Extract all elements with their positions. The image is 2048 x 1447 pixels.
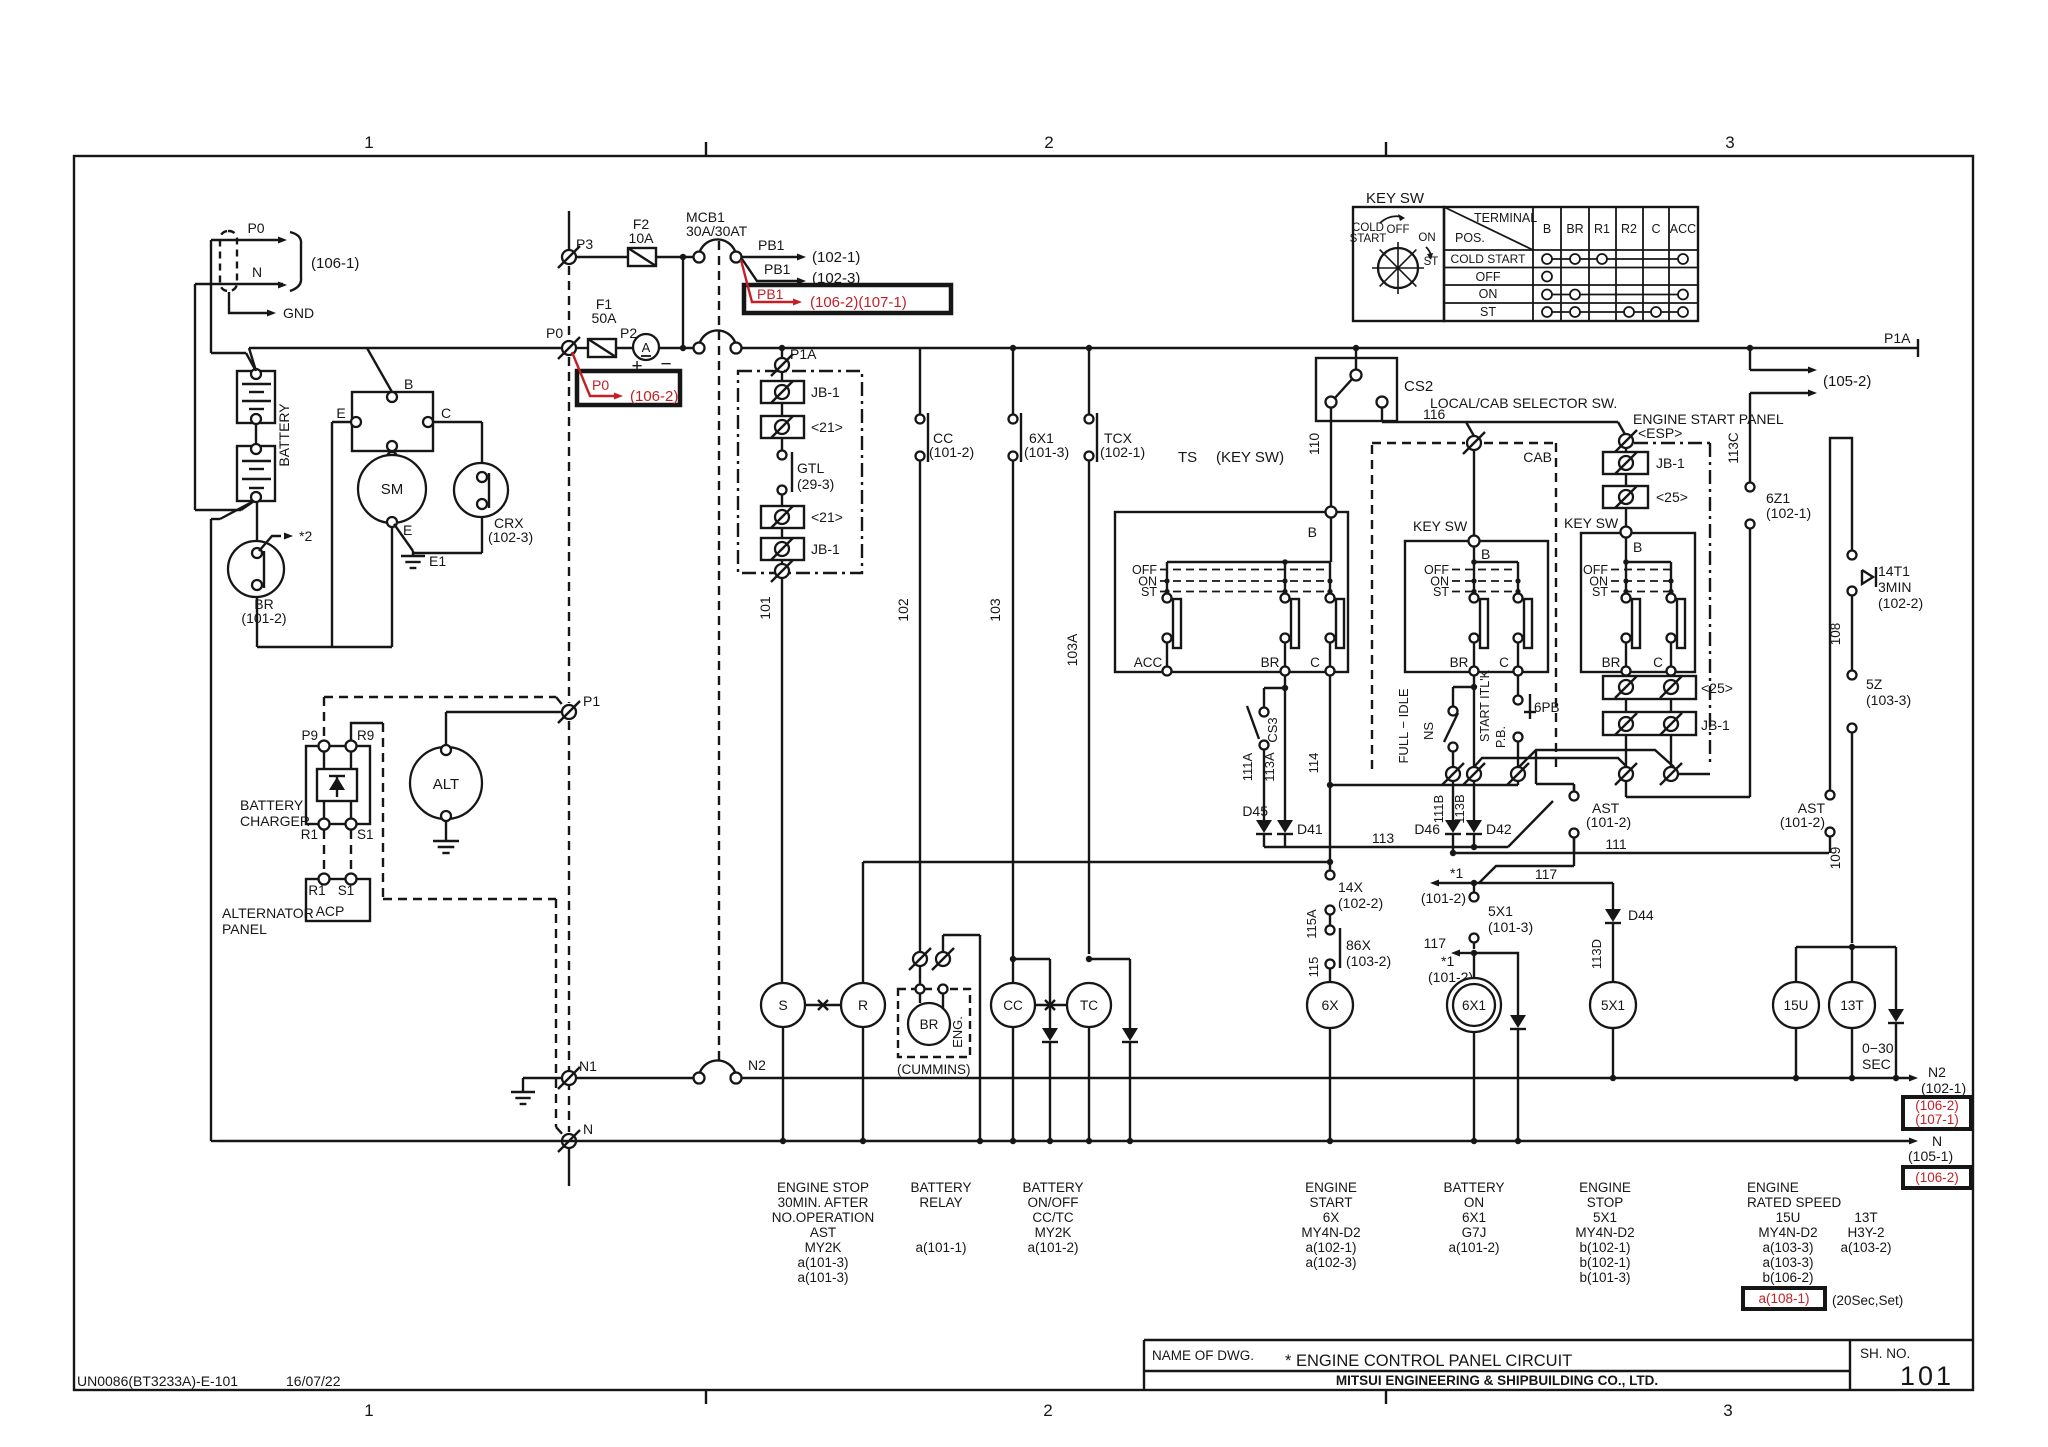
svg-text:BATTERY: BATTERY: [910, 1180, 971, 1195]
terminal ESP input: [1619, 434, 1633, 448]
svg-text:N2: N2: [1928, 1064, 1946, 1080]
surge diode 0-30SEC: [1862, 1009, 1904, 1081]
wire 113 bus: [1264, 801, 1553, 847]
svg-text:50A: 50A: [592, 310, 618, 326]
svg-text:(101-2): (101-2): [1586, 814, 1631, 830]
svg-text:C: C: [1499, 655, 1509, 670]
svg-text:115A: 115A: [1304, 909, 1319, 939]
surge diode beside 6X1: [1474, 953, 1526, 1140]
svg-text:JB-1: JB-1: [811, 541, 840, 557]
svg-text:(101-3): (101-3): [1024, 444, 1069, 460]
svg-text:TERMINAL: TERMINAL: [1474, 211, 1537, 225]
svg-text:LOCAL/CAB SELECTOR SW.: LOCAL/CAB SELECTOR SW.: [1430, 395, 1617, 411]
highlight box PB1 (106-2)(107-1): [741, 260, 951, 313]
svg-text:ENG.: ENG.: [950, 1016, 965, 1048]
key switch ESP box: [1564, 515, 1695, 676]
wire AST right feed loop: [1830, 438, 1852, 791]
mechanical link CC-TC: [1035, 1000, 1067, 1010]
wire battery minus to N bus (left drop): [211, 502, 252, 1141]
svg-text:<25>: <25>: [1701, 680, 1733, 696]
svg-text:b(101-3): b(101-3): [1579, 1270, 1630, 1285]
terminal box <25> ESP bottom: [1603, 675, 1733, 699]
svg-text:NS: NS: [1421, 722, 1436, 740]
svg-text:ACC: ACC: [1134, 655, 1163, 670]
svg-text:3: 3: [1723, 1401, 1732, 1420]
svg-text:b(106-2): b(106-2): [1762, 1270, 1813, 1285]
svg-text:a(101-3): a(101-3): [797, 1255, 848, 1270]
svg-text:MY4N-D2: MY4N-D2: [1575, 1225, 1634, 1240]
svg-text:15U: 15U: [1784, 998, 1809, 1013]
contact AST left (101-2): [1570, 785, 1632, 853]
breaker MCB1 pole 2: [694, 330, 742, 353]
legend engine stop AST: [772, 1180, 875, 1285]
svg-text:103: 103: [987, 598, 1003, 622]
alternator panel dashed boundary top: [324, 697, 565, 740]
crossover wire 6PB to ESP C: [1519, 750, 1674, 767]
svg-text:(20Sec,Set): (20Sec,Set): [1832, 1293, 1903, 1308]
svg-text:<21>: <21>: [811, 509, 843, 525]
svg-text:D44: D44: [1628, 907, 1654, 923]
wire TS BR column down: [0, 0, 1, 1]
svg-text:(102-1): (102-1): [812, 249, 860, 266]
svg-text:BR: BR: [1602, 655, 1621, 670]
svg-text:STOP: STOP: [1587, 1195, 1624, 1210]
svg-text:ON: ON: [1464, 1195, 1484, 1210]
svg-text:E: E: [336, 405, 345, 421]
key switch pictogram box: [1350, 207, 1444, 321]
bus N2: [741, 1064, 1966, 1096]
svg-text:SH. NO.: SH. NO.: [1860, 1346, 1910, 1361]
svg-text:BR: BR: [920, 1017, 939, 1032]
svg-text:6X1: 6X1: [1462, 998, 1486, 1013]
wire 102 to BR relay: [895, 461, 920, 952]
starter solenoid box: [336, 376, 451, 462]
svg-text:101: 101: [757, 596, 773, 620]
svg-text:ON: ON: [1418, 232, 1435, 244]
ALT ground: [433, 821, 459, 853]
alternator enclosure dashed boundary: [383, 723, 564, 1136]
switch CS3: [1247, 688, 1285, 820]
contact 6Z1 (102-1): [1746, 483, 1812, 798]
svg-text:113: 113: [1372, 830, 1395, 846]
svg-text:R9: R9: [357, 728, 374, 743]
svg-text:KEY SW: KEY SW: [1564, 515, 1619, 531]
legend battery on/off CC/TC: [1022, 1180, 1083, 1255]
starter motor SM: [358, 455, 426, 538]
svg-text:NAME OF DWG.: NAME OF DWG.: [1152, 1348, 1254, 1363]
svg-text:10A: 10A: [629, 230, 655, 246]
svg-text:GND: GND: [283, 305, 314, 321]
wire solenoid C to CRX: [433, 422, 482, 463]
svg-text:START: START: [1350, 233, 1387, 245]
wire 103 to coil CC: [987, 461, 1013, 983]
svg-text:D42: D42: [1486, 821, 1512, 837]
column labels: [364, 133, 1734, 1420]
svg-text:2: 2: [1043, 1401, 1052, 1420]
svg-text:ENGINE STOP: ENGINE STOP: [777, 1180, 869, 1195]
svg-text:a(101-2): a(101-2): [1027, 1240, 1078, 1255]
svg-text:86X: 86X: [1346, 937, 1372, 953]
svg-text:RATED SPEED: RATED SPEED: [1747, 1195, 1842, 1210]
relay coil S: [761, 983, 805, 1140]
svg-text:TC: TC: [1080, 998, 1098, 1013]
svg-text:109: 109: [1828, 847, 1843, 870]
svg-text:5X1: 5X1: [1593, 1210, 1617, 1225]
svg-text:RELAY: RELAY: [919, 1195, 962, 1210]
svg-text:102: 102: [895, 598, 911, 622]
svg-text:R1: R1: [301, 827, 318, 842]
svg-text:(106-2): (106-2): [1915, 1170, 1959, 1185]
crossover wire CAB BR to ESP BR: [1474, 758, 1626, 767]
svg-text:NO.OPERATION: NO.OPERATION: [772, 1210, 875, 1225]
wire PB1 branch 2 to (102-3): [742, 259, 860, 287]
wire 117 to D44: [1612, 883, 1614, 909]
svg-text:B: B: [1543, 222, 1551, 236]
svg-text:14X: 14X: [1338, 879, 1364, 895]
svg-text:P0: P0: [247, 220, 264, 236]
svg-text:(103-2): (103-2): [1346, 953, 1391, 969]
relay coil BR: [908, 993, 950, 1045]
breaker MCB1 pole 3: [694, 1057, 767, 1084]
terminal box JB-1 (upper): [761, 372, 840, 403]
dashed rail P1 to N: [568, 721, 570, 1132]
svg-text:D46: D46: [1414, 821, 1440, 837]
alternator control panel ACP: [306, 874, 370, 922]
bus P1A: [741, 330, 1918, 357]
svg-text:113D: 113D: [1589, 939, 1604, 969]
svg-text:a(103-3): a(103-3): [1762, 1255, 1813, 1270]
svg-text:101: 101: [1900, 1361, 1954, 1391]
selector switch CS2: [1316, 345, 1433, 421]
svg-text:P0: P0: [592, 377, 609, 393]
svg-text:CC: CC: [1003, 998, 1023, 1013]
svg-text:(102-1): (102-1): [1766, 505, 1811, 521]
wire 117 upper with *1 (101-2) arrow: [1421, 838, 1613, 906]
svg-text:MY4N-D2: MY4N-D2: [1758, 1225, 1817, 1240]
alternator ALT: [410, 745, 482, 821]
svg-text:(105-2): (105-2): [1823, 373, 1871, 390]
legend engine start 6X: [1301, 1180, 1360, 1270]
wire CAB BR column down: [1471, 675, 1477, 767]
svg-text:B: B: [1633, 539, 1642, 555]
dashed rail P3 to P0: [568, 266, 570, 339]
svg-text:KEY SW: KEY SW: [1413, 518, 1468, 534]
svg-text:GTL: GTL: [797, 460, 824, 476]
svg-text:D45: D45: [1242, 803, 1268, 819]
terminal P0: [546, 325, 580, 359]
svg-text:0−30: 0−30: [1862, 1040, 1894, 1056]
wire ESP BR output to 113C: [1626, 781, 1750, 797]
contact 6X1 (101-3): [1009, 345, 1070, 462]
svg-text:5Z: 5Z: [1866, 676, 1883, 692]
wire bus to solenoid B: [367, 348, 392, 392]
svg-text:117: 117: [1535, 866, 1558, 882]
wire 111B: [1431, 781, 1453, 823]
wire 6PB output to AST: [0, 0, 1, 1]
breaker MCB1 30A/30AT: [686, 209, 748, 263]
terminal box JB-1 (lower): [761, 528, 840, 560]
battery cell 1: [237, 369, 275, 424]
svg-text:116: 116: [1423, 406, 1446, 422]
switch NS (full-idle): [1421, 687, 1474, 767]
svg-text:E: E: [403, 522, 412, 538]
svg-text:108: 108: [1828, 623, 1843, 646]
svg-text:MY2K: MY2K: [805, 1240, 842, 1255]
wire N from cable to battery minus: [195, 284, 257, 510]
svg-text:S1: S1: [357, 827, 374, 842]
svg-text:C: C: [1310, 655, 1320, 670]
svg-text:* ENGINE CONTROL PANEL CIRCUI: * ENGINE CONTROL PANEL CIRCUIT: [1285, 1352, 1572, 1370]
mechanical link S-R: [805, 1000, 841, 1010]
svg-text:MY2K: MY2K: [1035, 1225, 1072, 1240]
terminal P1A: [771, 346, 817, 376]
svg-text:R1: R1: [1594, 222, 1610, 236]
terminal CAB input: [1467, 436, 1481, 450]
svg-text:TS: TS: [1178, 449, 1197, 466]
terminal P3: [558, 211, 593, 268]
stub below N: [568, 1149, 570, 1186]
wire 113A: [1262, 675, 1288, 820]
wire 117 lower with *1 (101-2) arrow: [1424, 935, 1474, 985]
fuse F1 50A: [577, 296, 637, 357]
terminal N1: [558, 1058, 597, 1089]
svg-text:CS2: CS2: [1404, 378, 1433, 395]
key switch CAB box: [1405, 518, 1548, 676]
svg-text:(101-2): (101-2): [1780, 814, 1825, 830]
svg-text:(102-1): (102-1): [1921, 1080, 1966, 1096]
svg-text:MY4N-D2: MY4N-D2: [1301, 1225, 1360, 1240]
wire P0 riser to battery plus: [211, 240, 256, 371]
svg-text:ACP: ACP: [316, 903, 345, 919]
svg-text:+: +: [631, 356, 642, 377]
bus N: [218, 1133, 1953, 1164]
terminal box <25> ESP top: [1603, 474, 1688, 508]
contact CC (101-2): [916, 348, 975, 462]
relay BR terminals: [909, 935, 980, 1140]
wire line A to AST left: [1536, 750, 1574, 791]
wire P1 to ALT: [446, 712, 561, 745]
wire 15U/13T header: [1796, 947, 1896, 1009]
svg-text:R1: R1: [308, 883, 325, 898]
svg-text:JB-1: JB-1: [1656, 455, 1685, 471]
contact 14X (102-2): [1304, 862, 1383, 939]
terminal box JB-1 ESP bottom: [1603, 699, 1730, 735]
svg-text:(107-1): (107-1): [1915, 1112, 1959, 1127]
terminal box JB-1 ESP top: [1603, 449, 1685, 474]
svg-text:6X1: 6X1: [1462, 1210, 1486, 1225]
svg-text:5X1: 5X1: [1601, 998, 1625, 1013]
svg-text:13T: 13T: [1854, 1210, 1877, 1225]
svg-text:ST: ST: [1433, 585, 1449, 599]
svg-text:*1: *1: [1441, 953, 1454, 969]
svg-text:S: S: [778, 997, 787, 1013]
svg-text:a(101-2): a(101-2): [1448, 1240, 1499, 1255]
terminal 101 bottom: [771, 560, 793, 582]
diode D42: [1466, 820, 1512, 850]
svg-text:PB1: PB1: [758, 237, 785, 253]
svg-text:*1: *1: [1450, 865, 1463, 881]
svg-text:N: N: [1932, 1133, 1942, 1149]
highlight box N2 (106-2)(107-1): [1903, 1097, 1971, 1129]
svg-text:COLD START: COLD START: [1451, 252, 1527, 266]
bus left segment: [249, 348, 561, 371]
ENGINE START PANEL caption: [1633, 411, 1784, 441]
contact AST right (101-2): [1780, 791, 1835, 854]
svg-text:P1: P1: [583, 693, 600, 709]
svg-text:ST: ST: [1480, 305, 1496, 319]
svg-text:a(108-1): a(108-1): [1758, 1291, 1809, 1306]
svg-text:5X1: 5X1: [1488, 903, 1513, 919]
svg-text:6X: 6X: [1321, 997, 1339, 1013]
svg-text:P0: P0: [546, 325, 563, 341]
svg-text:G7J: G7J: [1462, 1225, 1487, 1240]
svg-text:113A: 113A: [1262, 752, 1277, 782]
wire CRX to ground node: [413, 517, 482, 553]
svg-text:CHARGER: CHARGER: [240, 813, 310, 829]
wire 114 / TS C column down: [1306, 675, 1518, 865]
svg-text:PANEL: PANEL: [222, 921, 267, 937]
svg-text:16/07/22: 16/07/22: [286, 1373, 341, 1389]
diode D45: [1242, 803, 1272, 847]
svg-text:a(102-1): a(102-1): [1305, 1240, 1356, 1255]
legend engine rated speed 15U: [1747, 1180, 1842, 1285]
svg-text:15U: 15U: [1776, 1210, 1801, 1225]
ammeter A: [616, 334, 694, 377]
svg-text:a(101-1): a(101-1): [915, 1240, 966, 1255]
svg-text:(102-2): (102-2): [1338, 895, 1383, 911]
svg-text:113C: 113C: [1726, 432, 1741, 464]
contact 86X (103-2): [1306, 926, 1391, 983]
wire CAB terminal to key switch: [1473, 451, 1475, 535]
contact TCX (102-1): [1085, 345, 1146, 462]
svg-text:ST: ST: [1592, 585, 1608, 599]
svg-text:C: C: [1653, 655, 1663, 670]
svg-text:(29-3): (29-3): [797, 476, 834, 492]
wire 111 bus: [1453, 836, 1829, 853]
svg-text:<21>: <21>: [811, 419, 843, 435]
ESP panel boundary (dash-dot): [1634, 443, 1710, 766]
diode D44: [1589, 907, 1654, 981]
svg-text:SM: SM: [381, 481, 404, 498]
relay coil 6X1 (double circle): [1447, 953, 1501, 1140]
svg-text:(102-2): (102-2): [1878, 595, 1923, 611]
wire 103A to coil TC: [1064, 461, 1089, 954]
svg-text:a(101-3): a(101-3): [797, 1270, 848, 1285]
svg-text:117: 117: [1424, 935, 1447, 951]
key switch TS (local) box: [1115, 507, 1348, 676]
legend 13T: [1840, 1210, 1891, 1255]
CAB panel boundary (dashed): [1372, 443, 1556, 771]
battery charger box: [301, 728, 375, 842]
svg-text:1: 1: [364, 1401, 373, 1420]
svg-text:(CUMMINS): (CUMMINS): [897, 1062, 971, 1077]
svg-text:SEC: SEC: [1862, 1056, 1891, 1072]
wire PB1 branch 1 to (102-1): [741, 237, 860, 266]
surge diode at TC: [1089, 959, 1138, 1140]
svg-text:6X: 6X: [1323, 1210, 1340, 1225]
svg-text:(101-2): (101-2): [929, 444, 974, 460]
ALTERNATOR PANEL caption: [222, 905, 314, 937]
wire solenoid E loop: [332, 422, 352, 647]
engine boundary dashed box (CUMMINS): [897, 985, 971, 1078]
wire battery to BR: [256, 502, 258, 541]
svg-text:(101-3): (101-3): [1488, 919, 1533, 935]
svg-text:P1A: P1A: [1884, 330, 1911, 346]
svg-text:START: START: [1309, 1195, 1352, 1210]
svg-text:PB1: PB1: [764, 261, 791, 277]
wire R coil feed bus: [863, 862, 1330, 983]
svg-text:ACC: ACC: [1670, 222, 1696, 236]
key switch terminal table: [1444, 207, 1698, 321]
wire R9 stub: [351, 723, 383, 741]
svg-text:a(103-2): a(103-2): [1840, 1240, 1891, 1255]
svg-text:MITSUI ENGINEERING & SHIPBUILD: MITSUI ENGINEERING & SHIPBUILDING CO., L…: [1336, 1373, 1658, 1388]
terminal box <21> (lower): [761, 506, 843, 528]
svg-text:ALT: ALT: [433, 776, 459, 793]
svg-text:1: 1: [364, 133, 373, 152]
svg-text:113B: 113B: [1452, 794, 1467, 823]
battery isolator BR: [228, 528, 312, 626]
svg-text:103A: 103A: [1064, 633, 1080, 666]
svg-text:S1: S1: [338, 883, 355, 898]
svg-text:B: B: [404, 376, 413, 392]
svg-text:ENGINE: ENGINE: [1579, 1180, 1631, 1195]
contact 14T1 3MIN (102-2) timer: [1828, 551, 1923, 671]
svg-text:P9: P9: [301, 728, 318, 743]
svg-text:114: 114: [1306, 753, 1321, 774]
svg-text:ON/OFF: ON/OFF: [1028, 1195, 1079, 1210]
svg-text:30MIN. AFTER: 30MIN. AFTER: [778, 1195, 869, 1210]
wire 110 CS2 to TS B: [1306, 407, 1331, 507]
terminal N: [558, 1121, 593, 1152]
cable shield to sheet 106-1: [195, 220, 359, 291]
BATTERY CHARGER caption: [240, 797, 310, 829]
svg-text:OFF: OFF: [1387, 224, 1410, 236]
dashed rail P0 to P1: [568, 357, 570, 703]
svg-text:6Z1: 6Z1: [1766, 490, 1790, 506]
wire 101 to relay S: [757, 579, 782, 983]
junction P1A to 101 string: [779, 345, 785, 357]
svg-text:<25>: <25>: [1656, 489, 1688, 505]
svg-text:115: 115: [1306, 957, 1321, 978]
relay coil CC: [991, 956, 1035, 1140]
relay coil R: [841, 983, 885, 1140]
svg-text:(106-2)(107-1): (106-2)(107-1): [810, 294, 907, 311]
ESP output terminals: [1615, 735, 1710, 785]
pushbutton 6PB (start interlock): [1478, 669, 1560, 767]
svg-text:14T1: 14T1: [1878, 563, 1910, 579]
svg-text:*2: *2: [299, 528, 312, 544]
svg-text:a(102-3): a(102-3): [1305, 1255, 1356, 1270]
battery cell 2: [237, 424, 275, 502]
relay coil 5X1: [1590, 982, 1636, 1081]
svg-text:N1: N1: [579, 1058, 597, 1074]
timer coil 15U: [1773, 982, 1819, 1081]
charger diode: [317, 751, 357, 819]
TS (KEY SW) caption: [1178, 449, 1284, 466]
bus N1: [523, 1077, 694, 1079]
svg-text:H3Y-2: H3Y-2: [1847, 1225, 1884, 1240]
svg-text:R2: R2: [1621, 222, 1637, 236]
fuse F2 10A: [576, 216, 694, 266]
svg-text:JB-1: JB-1: [1701, 717, 1730, 733]
svg-text:POS.: POS.: [1455, 231, 1485, 245]
highlight box a(108-1): [1743, 1288, 1903, 1309]
ground at N1: [511, 1078, 535, 1104]
highlight box N (106-2): [1903, 1167, 1971, 1188]
contact 5X1 (101-3): [1470, 883, 1534, 956]
legend battery relay: [910, 1180, 971, 1255]
